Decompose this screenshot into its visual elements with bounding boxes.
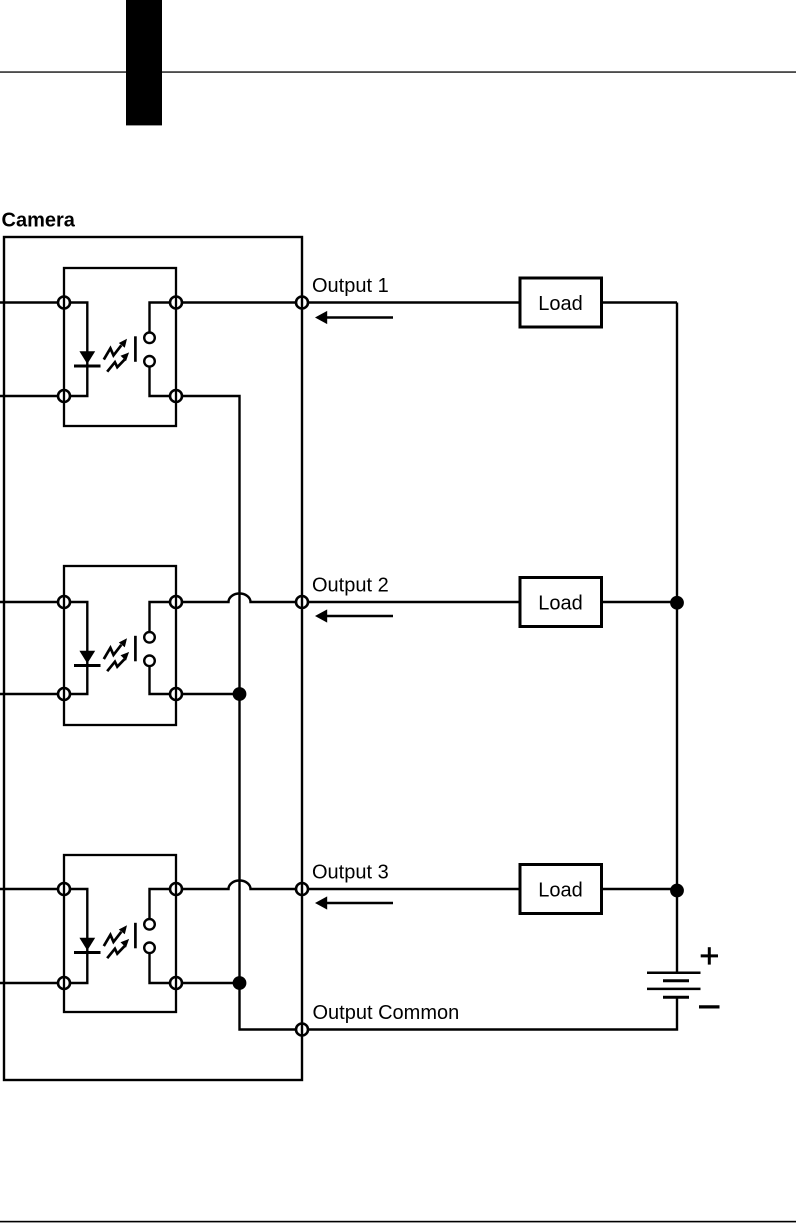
wire input 2- (left stub) xyxy=(0,693,64,695)
terminal PC3 pin 1 xyxy=(58,883,70,895)
wire Output 3: optocoupler to load (hops common line) xyxy=(176,881,520,890)
load resistor Load3 xyxy=(520,865,602,914)
camera enclosure outline xyxy=(4,237,302,1080)
wire photodetector PC3 collector xyxy=(150,889,177,919)
wire input 1+ (left stub) xyxy=(0,301,64,303)
photodetector contacts PC2 xyxy=(144,632,155,666)
svg-text:Output Common: Output Common xyxy=(313,1002,460,1024)
optocoupler PC3 body xyxy=(64,855,176,1012)
svg-text:Load: Load xyxy=(538,879,583,901)
optocoupler PC2 body xyxy=(64,566,176,725)
photodetector base bar PC1 xyxy=(134,336,137,362)
wire input 3- (left stub) xyxy=(0,982,64,984)
section thumb tab xyxy=(126,0,162,125)
current arrow output 1 xyxy=(315,311,393,324)
optocoupler PC1 body xyxy=(64,268,176,426)
load resistor Load2 xyxy=(520,578,602,627)
wire Output 1: optocoupler to load xyxy=(176,301,520,303)
wire load 1 to supply rail xyxy=(602,301,678,303)
node Output Common connector pin xyxy=(296,1024,308,1036)
svg-text:Camera: Camera xyxy=(2,210,76,232)
wire photodetector PC1 emitter xyxy=(150,367,177,396)
svg-text:Output 1: Output 1 xyxy=(312,275,389,297)
wire input 2+ (left stub) xyxy=(0,601,64,603)
wire LED PC1 anode/cathode loop xyxy=(64,303,87,397)
photodetector contacts PC3 xyxy=(144,919,155,953)
terminal PC2 pin 1 xyxy=(58,596,70,608)
wire input 1- (left stub) xyxy=(0,395,64,397)
terminal PC2 pin 2 xyxy=(58,688,70,700)
node Output 2 connector pin xyxy=(296,596,308,608)
wire load 2 to supply rail xyxy=(602,601,678,603)
terminal PC1 pin 2 xyxy=(58,390,70,402)
svg-text:Load: Load xyxy=(538,293,583,315)
wire PC3 emitter to common bus xyxy=(176,982,240,984)
wire photodetector PC2 emitter xyxy=(150,666,177,694)
node Output 3 connector pin xyxy=(296,883,308,895)
wire photodetector PC2 collector xyxy=(150,602,177,632)
load resistor Load1 xyxy=(520,278,602,327)
light emission arrows PC3 xyxy=(104,925,129,958)
junction xyxy=(233,687,247,701)
terminal PC1 pin 1 xyxy=(58,297,70,309)
terminal PC1 pin 3 xyxy=(170,390,182,402)
svg-text:Load: Load xyxy=(538,592,583,614)
junction xyxy=(670,596,684,610)
page header rule xyxy=(0,71,796,72)
wire PC2 emitter to common bus xyxy=(176,693,240,695)
wire LED PC2 anode/cathode loop xyxy=(64,602,87,694)
battery plus label xyxy=(701,947,718,964)
terminal PC2 pin 3 xyxy=(170,688,182,700)
light emission arrows PC2 xyxy=(104,638,129,671)
junction xyxy=(233,976,247,990)
current arrow output 3 xyxy=(315,896,393,909)
wire output common bus xyxy=(176,396,302,1030)
wire load 3 to supply rail xyxy=(602,888,678,890)
light emission arrows PC1 xyxy=(104,339,129,372)
battery minus label xyxy=(699,1005,720,1008)
LED D2 (PC2) xyxy=(74,651,101,666)
wire photodetector PC1 collector xyxy=(150,303,177,333)
terminal PC1 pin 4 xyxy=(170,297,182,309)
terminal PC3 pin 2 xyxy=(58,977,70,989)
node Output 1 connector pin xyxy=(296,297,308,309)
LED D3 (PC3) xyxy=(74,938,101,953)
photodetector contacts PC1 xyxy=(144,333,155,367)
photodetector base bar PC2 xyxy=(134,636,137,662)
wire battery negative return xyxy=(302,997,677,1029)
wire supply rail (right vertical) xyxy=(676,303,678,973)
current arrow output 2 xyxy=(315,609,393,622)
photodetector base bar PC3 xyxy=(134,923,137,949)
wire input 3+ (left stub) xyxy=(0,888,64,890)
page footer rule xyxy=(0,1221,796,1223)
terminal PC3 pin 3 xyxy=(170,977,182,989)
junction xyxy=(670,884,684,898)
battery BT1 xyxy=(647,973,701,998)
svg-text:Output 2: Output 2 xyxy=(312,575,389,597)
terminal PC2 pin 4 xyxy=(170,596,182,608)
svg-text:Output 3: Output 3 xyxy=(312,862,389,884)
wire photodetector PC3 emitter xyxy=(150,953,177,983)
wire LED PC3 anode/cathode loop xyxy=(64,889,87,983)
terminal PC3 pin 4 xyxy=(170,883,182,895)
wire Output 2: optocoupler to load (hops common line) xyxy=(176,594,520,603)
LED D1 (PC1) xyxy=(74,351,101,366)
